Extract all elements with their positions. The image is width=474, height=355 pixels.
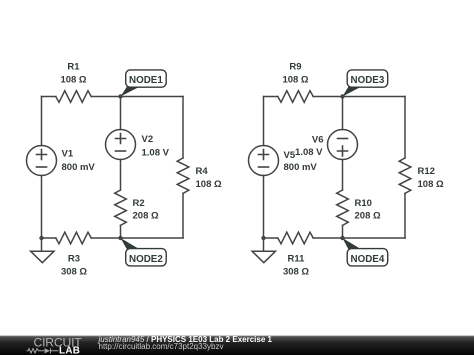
wire: right circuit left column from top rail down to V5 (263, 97, 265, 146)
wire: right circuit middle column from NODE3 down to V6 (342, 97, 344, 130)
node NODE3 callout (343, 87, 362, 97)
wire: right column R4 down to bottom rail (182, 193, 184, 238)
voltage source V6 (minus on top) (328, 130, 358, 160)
wire: middle column from NODE1 down to V2 (120, 97, 122, 130)
junction dot at NODE4 (340, 236, 344, 240)
resistor R3 (56, 232, 91, 244)
wire: left circuit top rail right segment (91, 96, 183, 98)
svg-text:1.08 V: 1.08 V (142, 147, 170, 158)
svg-text:R1: R1 (67, 62, 80, 73)
svg-text:V1: V1 (62, 149, 74, 160)
voltage source V1 (27, 146, 57, 176)
wire: left circuit top rail left segment (42, 96, 56, 98)
resistor R11 (278, 232, 313, 244)
svg-text:1.08 V: 1.08 V (295, 147, 323, 158)
resistor R1 (56, 91, 91, 103)
node NODE1 callout (121, 87, 141, 97)
svg-text:NODE4: NODE4 (351, 254, 385, 265)
wire: right circuit top rail left segment (264, 96, 278, 98)
ground (right circuit) (252, 251, 275, 263)
svg-text:308 Ω: 308 Ω (61, 266, 87, 277)
voltage source V5 (249, 146, 279, 176)
svg-text:V5: V5 (284, 150, 296, 161)
wire: left circuit bottom rail left segment (42, 237, 56, 239)
svg-text:V2: V2 (142, 134, 154, 145)
junction dot: V5/R11/ground node (261, 236, 265, 240)
resistor R12 (399, 158, 411, 193)
wire: right circuit right column from top rail down to R12 (404, 97, 406, 159)
svg-text:308 Ω: 308 Ω (283, 266, 309, 277)
svg-text:108 Ω: 108 Ω (60, 75, 86, 86)
svg-text:208 Ω: 208 Ω (133, 210, 159, 221)
resistor R10 (337, 190, 349, 225)
svg-text:http://circuitlab.com/c73pt2q3: http://circuitlab.com/c73pt2q33ybzv (99, 342, 224, 351)
svg-text:V6: V6 (312, 135, 324, 146)
wire: left column from top rail down to V1 (41, 97, 43, 146)
svg-text:R10: R10 (355, 198, 372, 209)
wire: right circuit left column from V5 down past bottom node to ground (263, 176, 265, 252)
wire: right circuit middle column R10 to NODE4 (342, 225, 344, 238)
resistor R9 (278, 91, 313, 103)
svg-text:R4: R4 (196, 166, 209, 177)
wire: right column from top rail down to R4 (182, 97, 184, 159)
svg-text:NODE1: NODE1 (129, 75, 163, 86)
wire: right circuit top rail right segment (313, 96, 405, 98)
wire: middle column R2 to NODE2 (120, 225, 122, 238)
svg-text:108 Ω: 108 Ω (418, 179, 444, 190)
svg-text:R9: R9 (289, 62, 301, 73)
junction dot: V1/R3/ground node (39, 236, 43, 240)
node NODE2 callout (121, 238, 141, 250)
svg-text:NODE2: NODE2 (129, 254, 163, 265)
svg-text:108 Ω: 108 Ω (282, 75, 308, 86)
svg-text:R11: R11 (288, 253, 306, 264)
wire: left column from V1 down past bottom node to ground (41, 176, 43, 252)
voltage source V2 (106, 130, 136, 160)
wire: right circuit bottom rail left segment (264, 237, 278, 239)
svg-text:208 Ω: 208 Ω (355, 210, 381, 221)
svg-text:R3: R3 (68, 253, 80, 264)
wire: left circuit bottom rail right segment (91, 237, 183, 239)
resistor R4 (177, 158, 189, 193)
node NODE4 callout (343, 238, 362, 250)
junction dot at NODE1 (118, 94, 122, 98)
svg-text:800 mV: 800 mV (284, 162, 318, 173)
resistor R2 (115, 190, 127, 225)
CircuitLab logo: resistor-diode glyph (27, 348, 59, 353)
ground (left circuit) (31, 251, 54, 263)
junction dot at NODE3 (340, 94, 344, 98)
svg-text:LAB: LAB (59, 345, 80, 355)
wire: right circuit bottom rail right segment (313, 237, 405, 239)
svg-text:NODE3: NODE3 (351, 75, 385, 86)
junction dot at NODE2 (118, 236, 122, 240)
wire: right circuit middle column V6 to R10 (342, 160, 344, 191)
svg-text:800 mV: 800 mV (62, 162, 96, 173)
svg-text:108 Ω: 108 Ω (196, 179, 222, 190)
svg-text:R2: R2 (133, 198, 145, 209)
svg-text:R12: R12 (418, 166, 435, 177)
wire: middle column V2 to R2 (120, 160, 122, 191)
wire: right circuit right column R12 down to bottom rail (404, 193, 406, 238)
